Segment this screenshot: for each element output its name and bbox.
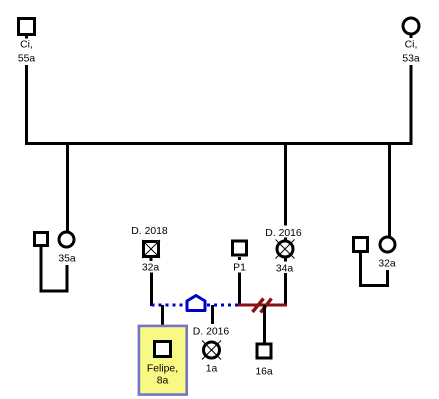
wire stub below grandfather square bbox=[25, 35, 28, 39]
grandfather square Ci 55a bbox=[19, 19, 35, 35]
svg-text:53a: 53a bbox=[402, 54, 420, 65]
svg-text:16a: 16a bbox=[255, 367, 273, 378]
wire stub below 34a bbox=[284, 259, 287, 262]
wire drop to 35a bbox=[66, 143, 69, 231]
wire stub below deceased square bbox=[150, 258, 153, 261]
deceased father square 32a bbox=[142, 240, 160, 258]
half brother square 16a bbox=[257, 344, 271, 358]
svg-text:Ci,: Ci, bbox=[405, 40, 418, 51]
svg-text:P1: P1 bbox=[233, 263, 246, 274]
wire stub below grandmother circle bbox=[410, 35, 413, 39]
wire drop to 1a bbox=[211, 305, 214, 324]
grandmother circle Ci 53a bbox=[403, 18, 419, 34]
svg-text:32a: 32a bbox=[378, 259, 396, 270]
stepfather square P1 bbox=[233, 241, 247, 255]
svg-text:8a: 8a bbox=[157, 376, 169, 387]
wire marriage line left couple bbox=[41, 246, 67, 291]
svg-text:1a: 1a bbox=[206, 364, 218, 375]
household house icon bbox=[187, 296, 205, 311]
svg-text:55a: 55a bbox=[18, 54, 36, 65]
deceased child circle 1a bbox=[202, 341, 221, 360]
svg-text:34a: 34a bbox=[276, 264, 294, 275]
right uncle square partner of right 32a bbox=[354, 238, 368, 252]
wire parents descent and sibling line bbox=[27, 65, 412, 144]
left uncle square partner of 35a bbox=[35, 233, 48, 246]
wire from P1 down to union bbox=[238, 273, 241, 307]
aunt circle 35a bbox=[59, 232, 74, 247]
svg-text:32a: 32a bbox=[142, 263, 160, 274]
wire drop to 34a bbox=[284, 143, 287, 241]
svg-text:Felipe,: Felipe, bbox=[147, 364, 178, 375]
Felipe square bbox=[155, 342, 171, 357]
wire marriage line right couple bbox=[361, 251, 388, 286]
wire blue dotted union 32a with P1 bbox=[152, 304, 241, 307]
aunt circle right 32a bbox=[380, 237, 395, 252]
wire drop to Felipe bbox=[161, 305, 164, 325]
wire drop to 16a bbox=[263, 305, 266, 343]
deceased mother circle 34a bbox=[276, 240, 295, 259]
divorce slashes bbox=[253, 299, 272, 313]
highlight box Felipe bbox=[139, 326, 187, 395]
svg-text:D. 2016: D. 2016 bbox=[193, 327, 230, 338]
wire drop to right 32a bbox=[388, 143, 391, 236]
wire from 34a down to union bbox=[284, 273, 287, 306]
svg-text:D. 2016: D. 2016 bbox=[265, 228, 302, 239]
wire from 32a down to union bbox=[150, 273, 153, 307]
svg-text:D. 2018: D. 2018 bbox=[131, 226, 168, 237]
svg-text:Ci,: Ci, bbox=[20, 40, 33, 51]
svg-text:35a: 35a bbox=[58, 254, 76, 265]
wire red divorce line P1 and 34a bbox=[238, 304, 287, 307]
wire stub below P1 bbox=[238, 257, 241, 260]
